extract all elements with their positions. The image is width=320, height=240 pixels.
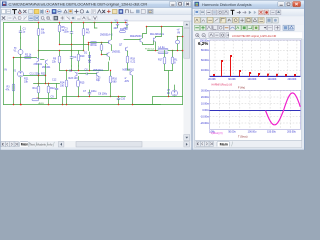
schematic editor canvas	[1, 21, 184, 141]
svg-text:100.00K: 100.00K	[248, 78, 257, 81]
right window minimize button	[278, 1, 285, 6]
resistor R10	[77, 54, 80, 61]
svg-text:140.00K: 140.00K	[268, 78, 277, 81]
wire right border net	[182, 27, 184, 105]
right toolbar row 4	[193, 32, 305, 39]
svg-text:2N5401G: 2N5401G	[93, 69, 103, 72]
svg-text:C10: C10	[121, 97, 126, 100]
svg-text:-40V: -40V	[124, 80, 129, 83]
transistor Q9 output	[154, 37, 156, 42]
svg-text:100u: 100u	[91, 90, 97, 93]
svg-text:20.00m: 20.00m	[201, 96, 209, 99]
svg-text:2N5551A-G: 2N5551A-G	[100, 34, 113, 37]
time axis frame	[210, 91, 301, 130]
svg-text:20.00K: 20.00K	[208, 78, 216, 81]
resistor RL	[172, 51, 174, 58]
transistor Q3	[109, 40, 111, 45]
harmonic x labels	[208, 78, 297, 81]
svg-text:100.00m: 100.00m	[200, 40, 209, 43]
resistor R10b vertical	[101, 43, 103, 45]
svg-text:LOCANTHE DBT-original_12kHz-di: LOCANTHE DBT-original_12kHz-dist.CIR	[232, 35, 277, 38]
svg-text:AVSS: AVSS	[39, 102, 45, 105]
svg-text:40V: 40V	[114, 27, 119, 30]
left window tab bar	[1, 141, 192, 148]
wire tail node	[39, 51, 72, 59]
svg-text:MJL3281A-G: MJL3281A-G	[150, 33, 164, 36]
svg-text:R15: R15	[80, 82, 85, 85]
svg-text:R22: R22	[41, 72, 46, 75]
svg-text:R23 100: R23 100	[69, 77, 79, 80]
resistor R15	[78, 76, 80, 80]
svg-text:30.00m: 30.00m	[201, 90, 209, 93]
wire emitter Q3 down	[111, 45, 113, 51]
svg-text:V(Rout) (V): V(Rout) (V)	[211, 132, 223, 135]
svg-text:R19 1k: R19 1k	[120, 28, 128, 31]
left window horizontal scrollbar	[58, 141, 190, 147]
svg-text:4k7: 4k7	[86, 32, 91, 35]
wire mirror bus	[60, 44, 89, 46]
capacitor C10	[118, 97, 120, 99]
svg-text:100.00u: 100.00u	[248, 131, 257, 134]
left window restore button	[177, 1, 183, 6]
svg-text:40.00m: 40.00m	[201, 69, 209, 72]
svg-text:R8 1k: R8 1k	[91, 44, 98, 47]
svg-text:150.00u: 150.00u	[267, 131, 276, 134]
transistor Q7	[97, 72, 99, 77]
harmonic axis frame	[210, 40, 301, 76]
svg-text:HARM(V(Rout)) (V): HARM(V(Rout)) (V)	[212, 83, 233, 86]
harmonic stems	[222, 57, 295, 77]
transistor Q10	[126, 47, 128, 52]
wire feedback bus	[63, 97, 111, 105]
resistor R5	[59, 23, 61, 26]
capacitor C3	[71, 23, 73, 32]
svg-text:R12: R12	[50, 87, 55, 90]
right window app icon	[195, 2, 200, 7]
svg-text:Info: Info	[48, 142, 53, 146]
svg-text:L1 2u: L1 2u	[159, 46, 166, 49]
svg-text:R10: R10	[80, 55, 85, 58]
time x labels	[209, 131, 296, 134]
svg-text:R17: R17	[158, 59, 163, 62]
capacitor C6	[86, 73, 87, 76]
svg-text:200.00u: 200.00u	[287, 131, 296, 134]
sine trace V(Rout)	[266, 93, 301, 125]
harmonic grid	[210, 41, 301, 77]
svg-text:IN: IN	[5, 68, 8, 71]
left window app icon	[2, 2, 7, 7]
resistor R17	[164, 51, 166, 58]
harmonic y labels	[200, 40, 209, 73]
wire emitter drop	[45, 64, 47, 83]
svg-text:Models: Models	[37, 142, 47, 146]
right window tab bar	[195, 140, 302, 147]
svg-text:60.00K: 60.00K	[228, 78, 236, 81]
wire driver to output	[124, 40, 154, 45]
right toolbar row 1	[193, 9, 305, 16]
left window close button	[184, 1, 191, 6]
svg-text:C11 220u: C11 220u	[30, 72, 41, 75]
resistor R6	[83, 23, 85, 29]
resistor R9 lower	[59, 51, 61, 57]
svg-text:60.00m: 60.00m	[201, 59, 209, 62]
wire to right net	[173, 50, 183, 52]
plot panel	[195, 39, 302, 141]
right toolbar row 3	[193, 24, 305, 31]
svg-text:Main: Main	[220, 143, 229, 147]
svg-text:10.00m: 10.00m	[201, 103, 209, 106]
svg-text:200.00K: 200.00K	[288, 78, 297, 81]
wire input node	[20, 38, 22, 50]
svg-text:MJE15030: MJE15030	[130, 35, 142, 38]
right window bottom strip	[193, 148, 305, 150]
svg-text:-20.00m: -20.00m	[200, 122, 209, 125]
svg-text:80.00m: 80.00m	[201, 49, 209, 52]
left window title bar	[1, 1, 192, 8]
svg-text:Harmonic Distortion Analysis: Harmonic Distortion Analysis	[202, 2, 252, 7]
resistor R18	[126, 56, 129, 63]
svg-text:C12: C12	[52, 79, 57, 82]
capacitor C4	[71, 51, 73, 57]
left toolbar row 1	[1, 8, 192, 15]
transistor Q8 driver	[140, 38, 142, 43]
left window frame	[0, 0, 192, 150]
time grid	[210, 91, 301, 130]
source V1	[18, 50, 23, 55]
diode D1	[89, 52, 91, 66]
resistor R8 horizontal	[89, 42, 109, 44]
wire output node	[148, 42, 158, 50]
svg-text:R11: R11	[33, 87, 38, 90]
svg-text:2N5551: 2N5551	[112, 51, 121, 54]
harmonic markers	[213, 55, 296, 76]
svg-text:C:\MC9\DATA\Petru\LOCANTHE DBT: C:\MC9\DATA\Petru\LOCANTHE DBT\LOCANTHE …	[9, 1, 148, 6]
inductor L1	[158, 48, 168, 50]
svg-text:Main: Main	[21, 143, 29, 147]
source V2	[18, 71, 24, 77]
svg-text:330: 330	[60, 85, 65, 88]
plot title	[229, 32, 302, 38]
capacitor C7	[89, 90, 91, 93]
left toolbar row 2	[1, 15, 192, 21]
right window frame	[192, 0, 305, 150]
source V7	[172, 90, 178, 96]
wire mid bus	[60, 62, 109, 71]
wire V+ right rail	[147, 26, 183, 28]
transistor Q2	[46, 60, 48, 65]
resistor R12	[48, 84, 50, 87]
resistor R14	[66, 71, 68, 81]
wire return box	[153, 97, 183, 105]
wire V+ top rail	[4, 22, 126, 24]
resistor R4	[38, 23, 40, 29]
time y labels	[200, 90, 209, 126]
resistor R16	[110, 71, 112, 77]
svg-text:T (Secs): T (Secs)	[238, 136, 248, 139]
left window status strip	[1, 147, 192, 149]
svg-text:0.22: 0.22	[131, 61, 136, 64]
node zero line	[210, 110, 301, 112]
right toolbar row 2	[193, 17, 305, 25]
wire load return	[165, 71, 173, 97]
wire ground bottom rail	[4, 104, 161, 106]
capacitor C9	[56, 84, 58, 89]
transistor Q11	[130, 71, 132, 76]
svg-text:-10.00m: -10.00m	[200, 116, 209, 119]
svg-text:680: 680	[113, 81, 118, 84]
node input junction	[20, 57, 22, 59]
right window restore button	[285, 1, 292, 6]
wire bias row	[24, 75, 46, 77]
wire lower join	[39, 99, 57, 105]
wire lower return bus	[133, 104, 183, 106]
resistor R13 horizontal	[32, 99, 39, 101]
svg-text:100n: 100n	[64, 31, 70, 34]
svg-text:33p: 33p	[96, 79, 101, 82]
transistor Q5 bias	[107, 52, 109, 57]
svg-text:Text: Text	[30, 142, 35, 146]
svg-text:50.00u: 50.00u	[228, 131, 236, 134]
wire left border	[3, 23, 5, 105]
svg-text:R2 1k: R2 1k	[25, 54, 32, 57]
svg-text:C8 100u: C8 100u	[98, 93, 108, 96]
left window minimize button	[170, 1, 176, 6]
resistor R19	[120, 31, 126, 33]
capacitor C1	[20, 26, 22, 31]
svg-text:0.00m: 0.00m	[202, 109, 209, 112]
transistor Q1	[36, 58, 38, 63]
resistor R2	[14, 57, 37, 59]
resistor R11 mid-left bank	[34, 64, 60, 84]
svg-text:F (Hz): F (Hz)	[238, 87, 245, 90]
transistor Q6	[75, 72, 77, 77]
right window close button	[293, 1, 301, 6]
wire VAS node	[72, 50, 84, 52]
svg-text:Probe1=2: Probe1=2	[145, 48, 155, 51]
svg-text:2N5401: 2N5401	[42, 66, 51, 69]
left window vertical scrollbar	[184, 21, 191, 141]
resistor R3	[13, 58, 15, 105]
